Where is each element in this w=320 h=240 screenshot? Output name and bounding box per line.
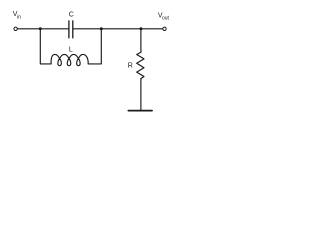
junction node A	[39, 27, 42, 30]
terminal Vout	[163, 27, 166, 30]
wire inductor branch left (down from node A)	[40, 29, 51, 64]
wire capacitor right plate to node B	[73, 28, 102, 30]
ground	[128, 110, 152, 112]
label Vin	[13, 11, 21, 20]
resistor R zigzag	[137, 52, 144, 78]
svg-text:R: R	[128, 62, 133, 69]
svg-text:out: out	[162, 16, 170, 22]
label Vout	[158, 13, 170, 22]
wire node B to node C	[101, 28, 141, 30]
wire node C to Vout terminal	[141, 28, 163, 30]
svg-text:L: L	[69, 47, 73, 54]
junction node B	[100, 27, 103, 30]
capacitor C	[69, 21, 73, 38]
junction node C	[140, 27, 143, 30]
wire top-left: Vin terminal to node A	[18, 28, 41, 30]
wire node A to capacitor left plate	[40, 28, 69, 30]
wire node C down to resistor	[140, 29, 142, 53]
terminal Vin	[14, 27, 17, 30]
svg-text:C: C	[69, 11, 74, 18]
wire inductor branch right (up to node B)	[88, 29, 101, 64]
svg-text:in: in	[17, 14, 21, 20]
wire resistor to ground	[140, 79, 142, 110]
inductor L coil	[51, 54, 88, 65]
